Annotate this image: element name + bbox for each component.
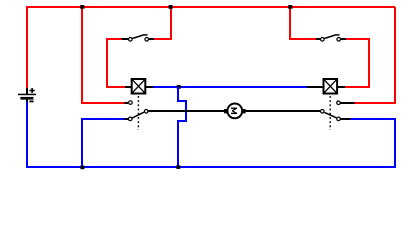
wire: K1 actuating link (dotted) — [137, 96, 139, 130]
relay coil K1 (left box with X) — [125, 78, 153, 94]
wire: rail drop at x=171 to switch S1 right terminal — [154, 7, 172, 40]
wire: far right drop from rail to right changeover top throw — [354, 7, 396, 104]
wire: right changeover bottom throw to bottom rail — [351, 119, 397, 168]
wire: K2 actuating link (dotted) — [329, 96, 331, 130]
motor M1 (circle with rotated M) — [224, 104, 245, 119]
wire: rail drop at x=290 to switch S4 left terminal — [289, 7, 316, 40]
node: junction bottom rail / x=82 — [80, 166, 84, 170]
wire: left vertical from rail to battery + — [26, 6, 28, 88]
wire: top positive rail — [26, 6, 395, 8]
wire: rail drop at x=82 to left changeover top throw — [81, 7, 125, 103]
node: junction top rail / x=171 — [169, 5, 173, 9]
changeover contact S2 (left SPDT, driven by K1) — [125, 101, 153, 121]
wire: bottom negative rail — [26, 166, 395, 168]
wire: drop from coil row junction to bottom rail (with jog) — [177, 87, 187, 168]
node: junction coil row / x=178 — [177, 85, 181, 89]
wire: S4 right terminal down to relay coil K2 right side — [345, 39, 370, 88]
wire: black from S2 common to motor — [149, 110, 225, 112]
wire: black from motor to S3 common — [246, 110, 321, 112]
node: junction top rail / x=82 — [80, 5, 84, 9]
switch S1 (normally-open contact, top left) — [122, 35, 154, 41]
wire: S1 left terminal down to relay coil K1 — [106, 38, 125, 88]
node: junction top rail / x=290 — [288, 5, 292, 9]
wire: blue from K1 to K2 (coil row) — [153, 86, 307, 88]
switch S4 (normally-open contact, top right) — [316, 35, 346, 41]
wire: left vertical from battery - to bottom rail — [26, 102, 28, 169]
relay coil K2 (right box with X) — [307, 78, 345, 94]
battery — [18, 88, 36, 102]
wire: bottom rail up at x=82 to left changeover bottom throw — [81, 119, 125, 168]
node: junction bottom rail / x=178 — [176, 165, 180, 169]
changeover contact S3 (right SPDT, driven by K2) — [316, 101, 355, 121]
